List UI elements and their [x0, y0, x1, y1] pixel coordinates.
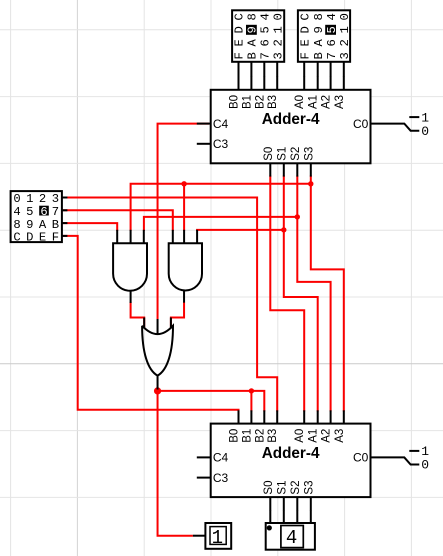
- display D2 input legs: [270, 510, 311, 523]
- svg-text:0: 0: [421, 124, 429, 139]
- switch SW1 lead from C0: [371, 124, 420, 131]
- svg-text:B: B: [246, 52, 260, 59]
- adder U2 pin labels A0-A3: [294, 429, 346, 443]
- hex keypad IN3 (value 5, rotated) legs: [304, 62, 344, 77]
- junction OR output: [154, 387, 161, 394]
- adder U1 top pin legs B0-B3: [239, 77, 278, 90]
- svg-text:B2: B2: [254, 95, 266, 109]
- switch SW2 contact "1": [409, 450, 419, 452]
- svg-text:D: D: [26, 231, 33, 245]
- svg-text:A1: A1: [308, 95, 320, 109]
- svg-text:4: 4: [286, 527, 297, 549]
- junction on S1 net: [281, 227, 286, 232]
- svg-text:B1: B1: [241, 95, 253, 109]
- svg-text:7: 7: [259, 52, 273, 59]
- svg-text:S2: S2: [290, 147, 302, 161]
- svg-text:8: 8: [246, 13, 260, 20]
- adder U2 body Adder-4: [211, 424, 371, 498]
- svg-text:C3: C3: [213, 471, 229, 485]
- wire keypad row0 to adder2 B3: [63, 198, 277, 412]
- adder U2 left pin leg C4: [197, 456, 211, 458]
- svg-text:9: 9: [312, 26, 326, 33]
- display D1 input leg: [193, 535, 206, 537]
- svg-text:7: 7: [325, 52, 339, 59]
- svg-text:A3: A3: [334, 95, 346, 109]
- svg-text:6: 6: [325, 39, 339, 46]
- svg-text:1: 1: [338, 26, 352, 33]
- hex keypad IN2 (value 9, rotated) legs: [239, 62, 278, 77]
- svg-text:B1: B1: [241, 429, 253, 443]
- display D2 (shows 4): [266, 523, 315, 550]
- svg-text:S0: S0: [263, 481, 275, 495]
- junction OR net to B1: [249, 388, 254, 393]
- wire adder1 S1 to adder2 A1: [284, 176, 318, 412]
- svg-text:C: C: [233, 13, 247, 20]
- svg-text:1: 1: [271, 26, 285, 33]
- svg-text:C3: C3: [213, 137, 229, 151]
- svg-text:5: 5: [325, 26, 339, 33]
- wire keypad row1 to AND2 input A: [63, 210, 173, 231]
- adder U2 top pin legs A0-A3: [304, 410, 344, 423]
- AND gate U3 input legs: [117, 230, 144, 243]
- AND gate U4 output leg: [183, 289, 185, 302]
- svg-text:B3: B3: [267, 95, 279, 109]
- adder U1 bottom pin legs S0-S3: [270, 163, 311, 176]
- adder U1 pin labels S0-S3: [263, 147, 316, 161]
- AND gate U4 input legs: [173, 230, 197, 243]
- svg-text:2: 2: [271, 39, 285, 46]
- svg-text:0: 0: [338, 13, 352, 20]
- svg-text:S1: S1: [277, 147, 289, 161]
- hex keypad IN2 (value 9, rotated): [232, 10, 285, 62]
- svg-text:F: F: [233, 52, 247, 59]
- adder U2 pin labels S0-S3: [263, 481, 316, 495]
- adder U1 pin labels B0-B3: [229, 95, 280, 109]
- svg-text:S1: S1: [277, 481, 289, 495]
- svg-text:A0: A0: [294, 95, 306, 109]
- svg-text:8: 8: [312, 13, 326, 20]
- svg-text:S2: S2: [290, 481, 302, 495]
- hex keypad IN1 output legs: [62, 198, 68, 236]
- AND gate U3 output leg: [130, 290, 132, 303]
- svg-text:S3: S3: [304, 481, 316, 495]
- svg-text:C4: C4: [213, 117, 229, 131]
- wire keypad row3 to adder2 B0: [63, 236, 239, 412]
- hex keypad IN3 (value 5, rotated): [298, 10, 352, 62]
- svg-text:A: A: [312, 38, 326, 46]
- AND gate U4 body: [169, 243, 202, 290]
- svg-text:0: 0: [421, 458, 429, 473]
- adder U1 body Adder-4: [211, 90, 371, 164]
- svg-text:B0: B0: [229, 95, 241, 109]
- svg-text:E: E: [39, 231, 46, 245]
- OR gate U5 body: [142, 326, 173, 376]
- adder U2 bottom pin legs S0-S3: [270, 497, 311, 510]
- wire AND2 output to OR input C: [171, 302, 184, 327]
- wire OR output to adder2 B2: [158, 391, 265, 412]
- svg-text:C0: C0: [353, 117, 369, 131]
- OR gate U5 input legs: [144, 318, 171, 335]
- svg-text:C0: C0: [353, 451, 369, 465]
- svg-text:3: 3: [338, 52, 352, 59]
- wire AND1 output to OR input A: [131, 302, 145, 327]
- wire S3 branch to AND1 input B: [131, 184, 311, 231]
- junction S3 to AND gates: [181, 181, 186, 186]
- junction on S3 net: [308, 181, 313, 186]
- svg-text:C4: C4: [213, 451, 229, 465]
- wire adder1 C4 to OR input B: [158, 124, 209, 319]
- switch SW2 lead from C0: [371, 457, 420, 464]
- adder U2 left pin leg C3: [197, 477, 211, 479]
- junction on S2 net: [295, 214, 300, 219]
- wire adder1 S0 to adder2 A0: [270, 176, 304, 412]
- switch SW1 contact "1": [409, 116, 419, 118]
- wire OR output to display D1: [158, 390, 193, 536]
- svg-text:2: 2: [338, 39, 352, 46]
- svg-text:B2: B2: [254, 429, 266, 443]
- wire adder1 S3 to adder2 A3: [311, 176, 344, 412]
- svg-text:A2: A2: [321, 429, 333, 443]
- hex keypad IN1 (value 6): [11, 191, 62, 245]
- svg-text:A0: A0: [294, 429, 306, 443]
- svg-text:Adder-4: Adder-4: [262, 445, 320, 462]
- svg-text:A1: A1: [308, 429, 320, 443]
- svg-text:D: D: [233, 26, 247, 33]
- svg-text:E: E: [233, 39, 247, 46]
- svg-text:5: 5: [259, 26, 273, 33]
- svg-text:4: 4: [259, 13, 273, 20]
- svg-text:Adder-4: Adder-4: [262, 111, 320, 128]
- svg-text:0: 0: [271, 13, 285, 20]
- adder U2 top pin legs B0-B3: [239, 410, 278, 423]
- svg-text:S3: S3: [304, 147, 316, 161]
- AND gate U3 body: [113, 243, 147, 291]
- wire S3 branch to AND2 input B: [183, 184, 185, 231]
- svg-text:3: 3: [271, 52, 285, 59]
- OR gate U5 output leg: [157, 376, 159, 390]
- adder U1 top pin legs A0-A3: [304, 77, 344, 90]
- svg-text:A2: A2: [321, 95, 333, 109]
- svg-text:C: C: [298, 13, 312, 20]
- svg-text:9: 9: [246, 26, 260, 33]
- svg-text:E: E: [298, 39, 312, 46]
- svg-text:6: 6: [259, 39, 273, 46]
- wire adder1 S2 to adder2 A2: [297, 176, 330, 412]
- svg-text:B: B: [312, 52, 326, 59]
- svg-text:4: 4: [325, 13, 339, 20]
- svg-text:1: 1: [212, 527, 223, 549]
- adder U2 pin labels B0-B3: [229, 429, 280, 443]
- svg-text:S0: S0: [263, 147, 275, 161]
- svg-text:F: F: [298, 52, 312, 59]
- svg-text:C: C: [13, 231, 20, 245]
- svg-text:A: A: [246, 38, 260, 46]
- svg-text:F: F: [52, 231, 59, 245]
- svg-text:B3: B3: [267, 429, 279, 443]
- svg-text:A3: A3: [334, 429, 346, 443]
- adder U1 pin labels A0-A3: [294, 95, 346, 109]
- wire S2 branch to AND1 input C: [144, 217, 297, 231]
- display D1 (shows 1): [205, 523, 231, 549]
- wire OR net branch to adder2 B1: [250, 391, 252, 412]
- wire keypad row2 to AND1 input A: [63, 223, 117, 231]
- svg-text:D: D: [298, 26, 312, 33]
- svg-text:B0: B0: [229, 429, 241, 443]
- wire S1 branch to AND2 input C: [197, 230, 284, 231]
- adder U1 left pin leg C3: [197, 143, 211, 145]
- adder U1 left pin leg C4: [197, 123, 211, 125]
